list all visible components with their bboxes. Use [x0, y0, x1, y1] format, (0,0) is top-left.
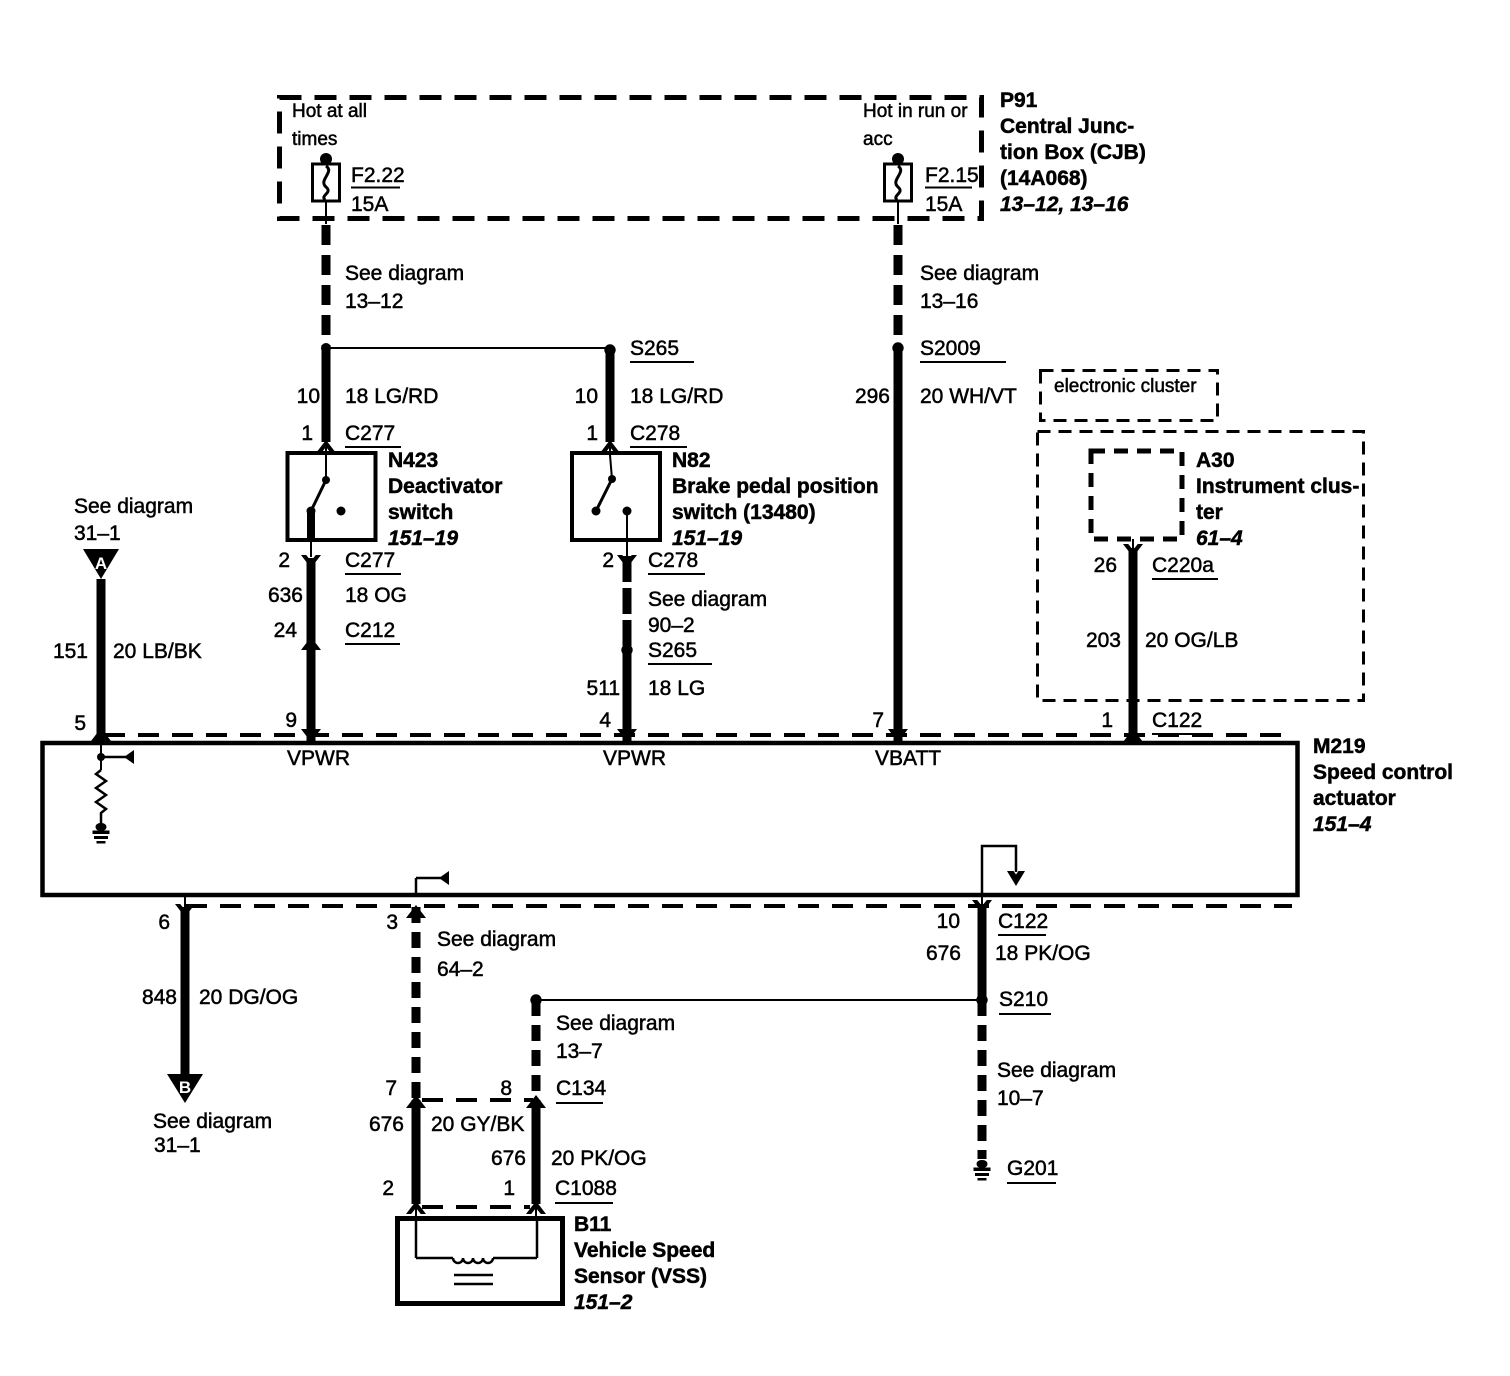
svg-text:10: 10	[575, 385, 598, 408]
svg-text:B: B	[179, 1078, 191, 1097]
svg-text:15A: 15A	[351, 193, 388, 216]
svg-text:actuator: actuator	[1313, 787, 1396, 810]
wire: thin link to splice S265	[326, 347, 610, 349]
svg-text:acc: acc	[863, 129, 893, 150]
wire: dashed to diagram 13-7	[536, 1000, 675, 1096]
connector C278 pin 2	[602, 540, 705, 574]
svg-text:31–1: 31–1	[74, 522, 121, 545]
M219 label block	[1313, 735, 1453, 836]
svg-text:F2.22: F2.22	[351, 164, 405, 187]
svg-text:296: 296	[855, 385, 890, 408]
svg-text:151–19: 151–19	[388, 527, 458, 550]
fuse F2.22 15A	[313, 153, 405, 224]
svg-text:G201: G201	[1007, 1157, 1058, 1180]
svg-text:6: 6	[158, 911, 170, 934]
svg-text:Speed control: Speed control	[1313, 761, 1453, 784]
svg-text:C134: C134	[556, 1077, 607, 1100]
svg-text:N423: N423	[388, 449, 438, 472]
svg-text:2: 2	[382, 1177, 394, 1200]
svg-text:ter: ter	[1196, 501, 1223, 524]
svg-text:S2009: S2009	[920, 337, 981, 360]
svg-text:8: 8	[500, 1077, 512, 1100]
svg-text:10: 10	[937, 910, 960, 933]
svg-text:F2.15: F2.15	[925, 164, 979, 187]
N82 label block	[672, 449, 879, 550]
wire 676 20 GY/BK	[369, 1100, 524, 1204]
A30 label block	[1196, 449, 1359, 550]
svg-text:61–4: 61–4	[1196, 527, 1243, 550]
wire: dashed circuit 13-12 from F2.22	[326, 225, 464, 346]
svg-text:C277: C277	[345, 549, 395, 572]
svg-text:C220a: C220a	[1152, 554, 1214, 577]
electronic cluster dashed box	[1041, 371, 1218, 421]
svg-text:2: 2	[602, 549, 614, 572]
connector C220a pin 26	[1094, 539, 1218, 579]
svg-text:151–4: 151–4	[1313, 813, 1372, 836]
wire: internal link to pin 10	[982, 846, 1025, 895]
wire: dashed to G201	[982, 1000, 1116, 1159]
P91 label block	[1000, 89, 1146, 216]
svg-text:See diagram: See diagram	[437, 928, 556, 951]
dashed connector line above M219	[104, 733, 1292, 737]
svg-text:24: 24	[274, 619, 298, 642]
svg-text:151–19: 151–19	[672, 527, 742, 550]
svg-text:P91: P91	[1000, 89, 1038, 112]
svg-text:See diagram: See diagram	[74, 495, 193, 518]
svg-text:1: 1	[586, 422, 598, 445]
M219 Speed control actuator box	[43, 743, 1298, 895]
svg-text:1: 1	[503, 1177, 515, 1200]
svg-text:C277: C277	[345, 422, 395, 445]
svg-text:Central Junc-: Central Junc-	[1000, 115, 1134, 138]
svg-text:M219: M219	[1313, 735, 1366, 758]
node: junction on wire 10	[321, 343, 331, 353]
wire 676 20 PK/OG	[491, 1100, 647, 1204]
svg-text:151: 151	[53, 640, 88, 663]
pin 10 connector C122 and wire 676 18 PK/OG	[926, 897, 1091, 1000]
svg-text:Vehicle Speed: Vehicle Speed	[574, 1239, 715, 1262]
svg-text:203: 203	[1086, 629, 1121, 652]
svg-text:15A: 15A	[925, 193, 962, 216]
wire: dashed circuit 13-16 from F2.15	[898, 225, 1039, 346]
svg-text:13–16: 13–16	[920, 290, 978, 313]
connector C1088 pins 2/1	[382, 1177, 617, 1220]
fuse F2.15 15A	[885, 153, 979, 224]
wire 511 18 LG	[587, 650, 706, 741]
wire 203 20 OG/LB	[1086, 548, 1238, 741]
svg-text:tion Box (CJB): tion Box (CJB)	[1000, 141, 1146, 164]
pin 6 and wire 848 20 DG/OG	[142, 897, 298, 1076]
svg-text:See diagram: See diagram	[153, 1110, 272, 1133]
pin 9 entering M219	[285, 709, 321, 742]
svg-text:2: 2	[278, 549, 290, 572]
svg-text:See diagram: See diagram	[345, 262, 464, 285]
svg-text:10: 10	[297, 385, 320, 408]
svg-text:13–12, 13–16: 13–12, 13–16	[1000, 193, 1129, 216]
P91 Central Junction Box (CJB) dashed enclosure	[280, 98, 982, 219]
svg-text:676: 676	[926, 942, 961, 965]
wire 636 18 OG	[268, 558, 407, 741]
wire: internal link to pin 3	[416, 871, 449, 895]
svg-text:Sensor (VSS): Sensor (VSS)	[574, 1265, 707, 1288]
svg-text:151–2: 151–2	[574, 1291, 633, 1314]
wire 10 18 LG/RD (left)	[297, 348, 439, 442]
triangle B off-page reference	[153, 1074, 272, 1157]
svg-text:20 LB/BK: 20 LB/BK	[113, 640, 202, 663]
splice S2009	[892, 337, 1006, 362]
svg-text:See diagram: See diagram	[997, 1059, 1116, 1082]
svg-text:Hot in run or: Hot in run or	[863, 101, 968, 122]
svg-text:switch (13480): switch (13480)	[672, 501, 816, 524]
connector C277 pin 2	[278, 540, 401, 574]
svg-text:18 LG: 18 LG	[648, 677, 705, 700]
svg-text:C278: C278	[630, 422, 680, 445]
svg-text:20 PK/OG: 20 PK/OG	[551, 1147, 647, 1170]
svg-text:4: 4	[599, 709, 611, 732]
svg-text:7: 7	[385, 1077, 397, 1100]
svg-text:Deactivator: Deactivator	[388, 475, 502, 498]
dashed connector line below M219	[186, 904, 1292, 908]
svg-text:31–1: 31–1	[154, 1134, 201, 1157]
svg-text:VBATT: VBATT	[875, 747, 941, 770]
svg-text:S210: S210	[999, 988, 1048, 1011]
N82 Brake pedal position switch box	[572, 453, 660, 540]
splice S210	[976, 988, 1051, 1014]
ground (internal, M219)	[93, 823, 110, 844]
N423 label block	[388, 449, 502, 550]
svg-text:Instrument clus-: Instrument clus-	[1196, 475, 1359, 498]
splice S265 (top)	[604, 337, 694, 362]
svg-text:20 WH/VT: 20 WH/VT	[920, 385, 1017, 408]
svg-text:18 LG/RD: 18 LG/RD	[630, 385, 723, 408]
B11 label block	[574, 1213, 715, 1314]
A30 instrument cluster dashed square	[1091, 451, 1182, 539]
svg-text:S265: S265	[630, 337, 679, 360]
svg-text:20 GY/BK: 20 GY/BK	[431, 1113, 524, 1136]
svg-text:C278: C278	[648, 549, 698, 572]
svg-text:676: 676	[491, 1147, 526, 1170]
svg-text:times: times	[292, 129, 337, 150]
svg-text:18 OG: 18 OG	[345, 584, 407, 607]
svg-text:VPWR: VPWR	[603, 747, 666, 770]
pin 4 entering M219	[599, 709, 637, 742]
svg-text:electronic cluster: electronic cluster	[1054, 376, 1197, 397]
connector C278 pin 1	[586, 422, 687, 456]
svg-text:See diagram: See diagram	[556, 1012, 675, 1035]
svg-text:See diagram: See diagram	[920, 262, 1039, 285]
svg-text:A30: A30	[1196, 449, 1235, 472]
svg-text:7: 7	[872, 709, 884, 732]
pin 5 of M219	[74, 712, 111, 741]
svg-text:See diagram: See diagram	[648, 588, 767, 611]
svg-text:20 DG/OG: 20 DG/OG	[199, 986, 298, 1009]
svg-text:9: 9	[285, 709, 297, 732]
svg-text:S265: S265	[648, 639, 697, 662]
svg-text:26: 26	[1094, 554, 1117, 577]
wire 296 20 WH/VT	[855, 348, 1017, 741]
svg-text:B11: B11	[574, 1213, 612, 1236]
wire: triangle A feed 151 20 LB/BK	[53, 495, 202, 741]
connector C122 pin 1	[1101, 709, 1202, 742]
svg-text:A: A	[95, 554, 107, 573]
node: internal junction at pin 5	[97, 745, 134, 770]
svg-text:511: 511	[587, 677, 620, 700]
pin 3 and dashed wire to diagram 64-2	[386, 905, 556, 1100]
svg-text:10–7: 10–7	[997, 1087, 1044, 1110]
svg-text:(14A068): (14A068)	[1000, 167, 1088, 190]
svg-text:C122: C122	[998, 910, 1048, 933]
svg-text:1: 1	[1101, 709, 1113, 732]
svg-text:64–2: 64–2	[437, 958, 484, 981]
wire 10 18 LG/RD (right branch)	[575, 350, 724, 442]
svg-text:13–12: 13–12	[345, 290, 403, 313]
svg-text:N82: N82	[672, 449, 711, 472]
connector C277 pin 1	[301, 422, 401, 456]
svg-text:5: 5	[74, 712, 86, 735]
B11 Vehicle Speed Sensor box	[398, 1219, 563, 1304]
N423 Deactivator switch box	[288, 453, 376, 540]
ground G201	[974, 1157, 1059, 1183]
resistor (internal)	[96, 770, 106, 824]
connector C134 pins 7/8	[385, 1077, 606, 1108]
svg-text:848: 848	[142, 986, 177, 1009]
svg-text:C122: C122	[1152, 709, 1202, 732]
svg-text:VPWR: VPWR	[287, 747, 350, 770]
pin 7 entering M219	[872, 709, 908, 742]
svg-text:20 OG/LB: 20 OG/LB	[1145, 629, 1238, 652]
svg-text:Brake pedal position: Brake pedal position	[672, 475, 879, 498]
svg-text:636: 636	[268, 584, 303, 607]
instrument cluster outer dashed box	[1038, 432, 1364, 701]
splice S265 (lower)	[621, 639, 712, 664]
svg-text:C212: C212	[345, 619, 395, 642]
svg-text:676: 676	[369, 1113, 404, 1136]
svg-text:Hot at all: Hot at all	[292, 101, 367, 122]
svg-text:3: 3	[386, 911, 398, 934]
svg-text:C1088: C1088	[555, 1177, 617, 1200]
wire: dashed to diagram 90-2	[627, 556, 767, 648]
svg-text:13–7: 13–7	[556, 1040, 603, 1063]
svg-text:18 LG/RD: 18 LG/RD	[345, 385, 438, 408]
splice S210 link line	[530, 994, 981, 1005]
svg-text:18 PK/OG: 18 PK/OG	[995, 942, 1091, 965]
svg-text:switch: switch	[388, 501, 453, 524]
svg-text:1: 1	[301, 422, 313, 445]
svg-text:90–2: 90–2	[648, 614, 695, 637]
connector C212 pin 24	[274, 619, 400, 650]
